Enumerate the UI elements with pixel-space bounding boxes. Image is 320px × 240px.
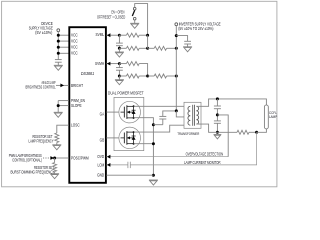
junction SVMH gnd node (118, 75, 121, 78)
wire secondary bottom (196, 124, 217, 132)
wire GB (106, 137, 120, 139)
capacitor C LCM series (127, 162, 129, 168)
wire SLOPE (58, 105, 69, 107)
wire divider vertical (147, 35, 149, 48)
switch S1 contacts (133, 7, 136, 10)
capacitor C supply bypass (184, 40, 191, 42)
wire BRIGHT (56, 84, 69, 86)
svg-text:LAMP FREQUENCY: LAMP FREQUENCY (29, 138, 54, 143)
transformer secondary winding (196, 106, 198, 124)
wire VCC pin 2 (58, 40, 69, 42)
svg-text:BRIGHT: BRIGHT (71, 83, 84, 87)
svg-text:PWM_EN: PWM_EN (71, 99, 85, 103)
svg-text:DS3881: DS3881 (81, 71, 94, 77)
svg-text:LAMP CURRENT MONITOR: LAMP CURRENT MONITOR (184, 160, 220, 165)
resistor R LOSC (55, 133, 59, 143)
wire VCC pin 3 (58, 46, 69, 48)
op-amp U1 DS3881 CCFL controller (69, 27, 106, 183)
wire burst res to gnd (54, 172, 56, 174)
junction SVML node (118, 34, 121, 37)
lamp CCFL (264, 105, 268, 129)
arrow into BRIGHT (60, 84, 64, 88)
capacitor VCC bypass (55, 59, 62, 61)
wire switch bottom (134, 20, 136, 23)
wire resonant cap tie (153, 124, 162, 126)
svg-text:VCC: VCC (71, 33, 78, 37)
wire drain1 to transformer (134, 105, 191, 107)
wire switch top (135, 4, 148, 36)
junction POSC (53, 157, 56, 160)
svg-text:(5V ±10% TO 24V ±10%): (5V ±10% TO 24V ±10%) (178, 26, 213, 31)
resistor R divider2 high (148, 75, 155, 77)
ground supply bypass (183, 46, 192, 48)
capacitor C SVML (118, 35, 120, 43)
wire SVMH (106, 63, 119, 65)
junction rail row2 (175, 47, 178, 50)
transformer T1 box (184, 102, 201, 128)
junction VCC1 (57, 34, 60, 37)
wire POSC (54, 157, 69, 159)
ground power (149, 179, 158, 181)
ground PWM_EN/SLOPE (54, 111, 63, 113)
svg-text:EN = OPEN: EN = OPEN (111, 9, 124, 14)
resistor R SVML upper (119, 34, 126, 36)
svg-text:DUAL POWER MOSFET: DUAL POWER MOSFET (108, 91, 144, 96)
ground SVML (118, 48, 120, 52)
ground switch (130, 22, 139, 24)
junction VCC4 (57, 52, 60, 55)
wire source2 (134, 143, 154, 145)
svg-text:GND: GND (97, 173, 104, 177)
wire LCM left (106, 164, 128, 166)
junction VCC3 (57, 46, 60, 49)
junction SVML/switch (146, 34, 149, 37)
wire VCC pin 1 (58, 34, 69, 36)
wire cap to ground (57, 62, 59, 65)
junction rail row4 (175, 75, 178, 78)
svg-text:POSC/PWM: POSC/PWM (71, 156, 89, 160)
wire LCM right (130, 132, 256, 165)
junction SLOPE (57, 104, 60, 107)
arrow into SVML (107, 33, 111, 37)
junction common source gnd (152, 174, 155, 177)
svg-text:OVD: OVD (97, 155, 104, 159)
svg-text:BRIGHTNESS CONTROL: BRIGHTNESS CONTROL (26, 85, 56, 90)
transistor Q1 upper MOSFET (119, 101, 141, 123)
svg-text:OFF/RESET = CLOSED: OFF/RESET = CLOSED (97, 15, 125, 20)
resistor R divider2 low (119, 75, 126, 77)
capacitor C OVD low (214, 120, 221, 122)
junction rail cap branch (175, 34, 178, 37)
junction source vertical top (152, 123, 155, 126)
junction ovd tap (216, 113, 219, 116)
arrow into SVMH (107, 62, 111, 66)
resistor R divider high (148, 47, 155, 49)
arrow into POSC (50, 156, 54, 160)
junction divider2 mid (146, 75, 149, 78)
svg-text:TRANSFORMER: TRANSFORMER (177, 131, 199, 136)
svg-text:GA: GA (100, 112, 105, 116)
wire LOSC (57, 125, 69, 133)
wire ovd tap branch (217, 115, 228, 157)
wire device supply rail (57, 32, 59, 60)
svg-text:BURST-DIMMING FREQUENCY: BURST-DIMMING FREQUENCY (11, 170, 55, 175)
junction SVML gnd node (118, 47, 121, 50)
wire GND pin (106, 174, 153, 176)
wire inverter supply rail (175, 26, 177, 111)
arrow into OVD (107, 155, 111, 159)
wire PWM_EN (58, 100, 69, 102)
svg-text:LOSC: LOSC (71, 123, 80, 127)
resistor R SVMH upper (119, 63, 126, 65)
capacitor C resonant (163, 111, 177, 117)
svg-text:(5V ±10%): (5V ±10%) (35, 30, 52, 35)
wire source1 jog (134, 118, 154, 176)
terminal inverter supply (175, 23, 178, 26)
resistor R divider low (119, 47, 126, 49)
junction rail resonant (175, 109, 178, 112)
capacitor C OVD high (216, 99, 218, 106)
switch S1 lever (132, 10, 134, 16)
terminal device supply (57, 29, 60, 32)
junction SVMH node (118, 62, 121, 65)
ground SVMH (118, 76, 120, 80)
transistor Q2 lower MOSFET (119, 127, 141, 149)
wire to supply cap (176, 36, 187, 42)
arrow into LCM (107, 163, 111, 167)
svg-text:OVERVOLTAGE DETECTION: OVERVOLTAGE DETECTION (186, 152, 224, 157)
transformer primary winding (188, 106, 190, 125)
transformer core (192, 105, 194, 126)
ground POSC (50, 173, 59, 175)
wire lamp bottom (257, 129, 267, 132)
svg-text:SLOPE: SLOPE (71, 104, 82, 108)
junction ovd cap top (216, 97, 219, 100)
wire OVD (106, 156, 228, 158)
junction divider mid (146, 47, 149, 50)
wire POSC to resistor (54, 158, 56, 163)
ground OVD divider (214, 134, 222, 136)
wire secondary top (196, 99, 266, 106)
wire LOSC res to gnd (56, 143, 58, 145)
wire center tap (176, 111, 190, 117)
svg-text:VCC: VCC (71, 51, 78, 55)
svg-text:LAMP: LAMP (269, 115, 278, 119)
wire GA (106, 111, 120, 113)
junction lamp bottom (255, 131, 258, 134)
wire ovd mid (216, 109, 218, 121)
svg-text:LCM: LCM (97, 163, 104, 167)
junction source2 (152, 142, 155, 145)
ground LOSC (52, 144, 61, 146)
svg-text:VCC: VCC (71, 39, 78, 43)
resistor R burst dimming (53, 163, 57, 172)
svg-text:SVMH: SVMH (95, 62, 105, 66)
svg-text:VCC: VCC (71, 45, 78, 49)
ground VCC bypass (54, 64, 63, 66)
wire supply cap to gnd (187, 44, 189, 47)
wire PWM_EN/SLOPE vertical (57, 101, 59, 113)
junction VCC2 (57, 40, 60, 43)
wire VCC pin 4 (58, 52, 69, 54)
svg-text:CONTROL (OPTIONAL): CONTROL (OPTIONAL) (12, 158, 42, 163)
junction ovd gnd (216, 131, 219, 134)
svg-text:SVML: SVML (96, 33, 105, 37)
resistor R lamp current sense (217, 131, 237, 133)
svg-text:GB: GB (100, 138, 105, 142)
transistor package box (114, 97, 144, 150)
wire POSC dashed (43, 157, 51, 159)
wire drain2 to primary bottom (134, 125, 191, 132)
wire SVML (106, 34, 119, 36)
capacitor C SVMH (118, 64, 120, 68)
